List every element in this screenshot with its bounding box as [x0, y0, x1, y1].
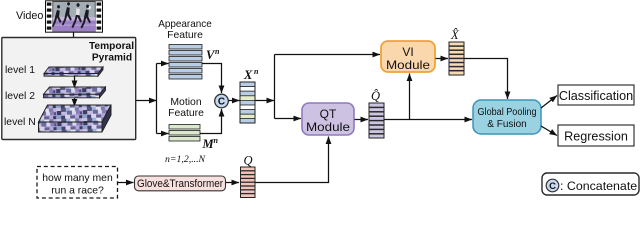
- svg-text:Classification: Classification: [559, 89, 633, 103]
- svg-text:level N: level N: [4, 117, 36, 128]
- wire Mn to concat: [200, 109, 222, 134]
- VI module box: [381, 41, 435, 72]
- svg-text:Temporal: Temporal: [89, 41, 134, 52]
- wire Qhat branch to VI module: [409, 74, 411, 120]
- svg-text:Q: Q: [244, 154, 253, 168]
- Xn stack: [240, 82, 255, 123]
- Classification box: [558, 85, 634, 105]
- wire video to pyramid: [73, 32, 75, 67]
- appearance feature stack Vn: [169, 45, 202, 80]
- temporal pyramid box: [2, 38, 136, 140]
- wire Xhat to Global Pooling: [465, 59, 508, 100]
- wire branch to VI module: [275, 54, 381, 56]
- concat circle C: [215, 94, 229, 108]
- wire question to Glove: [118, 182, 134, 184]
- wire VI to Xhat stack: [436, 58, 449, 60]
- svg-text:n=1,2,...N: n=1,2,...N: [165, 154, 206, 165]
- video filmstrip: [46, 1, 103, 32]
- wire junction to appearance stack: [157, 63, 169, 65]
- svg-text:X: X: [243, 68, 253, 82]
- svg-text:Pyramid: Pyramid: [92, 53, 132, 64]
- legend box: [542, 173, 639, 195]
- svg-text:C: C: [549, 181, 556, 192]
- svg-text:Global Pooling: Global Pooling: [478, 107, 537, 118]
- svg-text:Q̂: Q̂: [371, 89, 380, 103]
- level 1 slab: [44, 67, 103, 76]
- wire level1 to level2: [74, 77, 76, 89]
- svg-text:n: n: [215, 47, 220, 56]
- svg-text:QT: QT: [320, 107, 337, 121]
- wire junction vertical: [156, 64, 158, 134]
- svg-text:Module: Module: [306, 120, 350, 134]
- QT module box: [302, 103, 354, 135]
- wire Vn to concat: [202, 64, 222, 94]
- wire Q to QT module: [256, 137, 329, 183]
- runner with white shirt: [72, 3, 82, 28]
- wire Qhat to Global Pooling: [385, 119, 473, 121]
- wire pyramid to feature junction: [136, 100, 157, 102]
- wire junction to motion stack: [157, 133, 169, 135]
- svg-text:X̂: X̂: [450, 28, 460, 42]
- svg-text:run a race?: run a race?: [51, 186, 104, 197]
- svg-text:Appearance: Appearance: [158, 19, 212, 30]
- svg-text:C: C: [218, 97, 225, 108]
- svg-text:: Concatenate: : Concatenate: [560, 179, 637, 193]
- Qhat stack: [369, 103, 384, 138]
- svg-text:Feature: Feature: [167, 30, 203, 41]
- svg-text:how many men: how many men: [42, 173, 113, 184]
- Xhat stack: [449, 42, 464, 75]
- wire branch to QT module: [275, 118, 302, 120]
- level N slab: [39, 105, 112, 132]
- svg-text:Glove&Transformer: Glove&Transformer: [137, 178, 223, 190]
- svg-text:level 2: level 2: [5, 91, 35, 102]
- Q stack: [241, 167, 256, 198]
- svg-text:Motion: Motion: [170, 97, 201, 108]
- wire Glove to Q stack: [226, 182, 239, 184]
- legend concat circle: [546, 179, 559, 192]
- wire branch vertical: [274, 55, 276, 119]
- svg-text:& Fusion: & Fusion: [487, 119, 526, 130]
- Glove and Transformer box: [135, 176, 226, 191]
- svg-text:Regression: Regression: [564, 130, 628, 144]
- wire Xn to branch: [256, 100, 275, 102]
- Regression box: [558, 125, 634, 146]
- svg-text:level 1: level 1: [5, 65, 35, 76]
- wire level2 to levelN: [74, 98, 76, 106]
- wire QT to Qhat stack: [355, 119, 369, 121]
- svg-text:Module: Module: [386, 58, 430, 72]
- svg-text:Feature: Feature: [168, 108, 204, 119]
- level 2 slab: [44, 87, 106, 98]
- svg-text:VI: VI: [402, 45, 413, 59]
- wire concat to Xn stack: [229, 100, 240, 102]
- Global Pooling and Fusion box: [473, 100, 541, 134]
- svg-text:n: n: [254, 67, 259, 76]
- question dashed box: [37, 167, 118, 199]
- motion feature stack Mn: [169, 125, 200, 142]
- svg-text:n: n: [214, 136, 219, 145]
- svg-text:Video: Video: [16, 10, 43, 22]
- wire GP to Regression: [541, 126, 557, 136]
- wire GP to Classification: [541, 96, 557, 109]
